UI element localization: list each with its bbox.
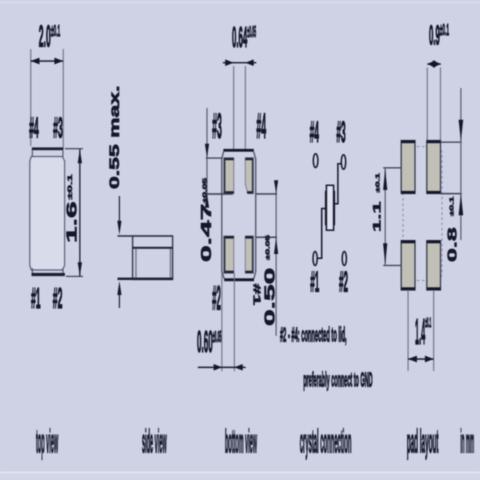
dimension 0.47 line: [205, 108, 209, 208]
svg-text:±0.05: ±0.05: [247, 25, 256, 42]
top view body outline: [30, 157, 65, 271]
caption side view: [142, 425, 167, 461]
dimension 0.8 line: [459, 88, 464, 240]
side view body outline: [133, 236, 173, 280]
side view pad line right: [170, 249, 171, 279]
pin label #3 (top view): [53, 112, 63, 145]
pin label #2 (bottom view): [212, 281, 221, 318]
dimension 0.60 extension line right: [234, 273, 235, 371]
svg-text:#2: #2: [339, 266, 348, 299]
terminal circle #3: [341, 155, 345, 170]
dimension 0.50 extension line bottom: [256, 237, 277, 239]
svg-text:side view: side view: [142, 425, 167, 461]
dimension 0.64 extension line right: [245, 66, 246, 150]
svg-text:top view: top view: [36, 425, 58, 461]
pad TR (pad layout): [427, 141, 441, 194]
dimension 2.0±0.1 text: [39, 18, 61, 53]
svg-text:bottom view: bottom view: [225, 425, 257, 461]
svg-text:±0.1: ±0.1: [440, 20, 449, 39]
dimension 0.55 max. text (vertical): [107, 85, 122, 189]
frame line top: [0, 2, 480, 3]
svg-text:±0.05: ±0.05: [213, 329, 222, 346]
svg-text:#1: #1: [251, 284, 262, 306]
dimension 0.8±0.1 text (vertical): [446, 196, 460, 262]
svg-text:±0.1: ±0.1: [51, 21, 60, 40]
svg-text:0.47: 0.47: [198, 204, 214, 262]
dimension 0.50 extension line top: [256, 193, 277, 195]
dimension 0.55 arrow line upper: [117, 196, 121, 235]
pad #3 (bottom view top-left): [224, 158, 234, 194]
terminal circle #4: [313, 154, 318, 168]
pin label #4 (crystal): [310, 115, 320, 149]
svg-text:0.60: 0.60: [197, 325, 213, 359]
dimension 1.6 extension line top: [65, 148, 83, 149]
dimension 0.47 extension line top: [206, 157, 222, 158]
pad TL (pad layout): [401, 141, 415, 194]
dimension 1.4 extension line right: [433, 290, 434, 371]
bottom view body bottom edge: [224, 278, 254, 281]
dimension 1.4 extension line left: [408, 290, 409, 371]
svg-text:0.9: 0.9: [429, 20, 440, 51]
pad layout footprint outline (dashed): [403, 147, 442, 281]
svg-text:#1: #1: [31, 282, 41, 315]
pad #4 (bottom view top-right): [245, 158, 253, 194]
svg-text:preferably connect to GND: preferably connect to GND: [303, 370, 372, 392]
pad #2 (bottom view bottom-left): [224, 236, 234, 273]
caption pad layout: [407, 423, 439, 460]
svg-text:#2: #2: [212, 281, 221, 318]
dimension 2.0 extension line left: [30, 49, 31, 146]
svg-text:±0.1: ±0.1: [67, 174, 74, 200]
svg-text:1.6: 1.6: [64, 201, 80, 243]
dimension 0.8 extension line bottom: [441, 193, 462, 195]
pin label #1 (top view): [31, 282, 41, 315]
top view pad edge bottom: [32, 268, 65, 276]
svg-text:±0.1: ±0.1: [375, 172, 381, 192]
svg-text:#4: #4: [256, 108, 266, 146]
dimension 0.64±0.05 text: [232, 21, 256, 54]
wire from #3 to crystal: [334, 164, 342, 204]
pin label #2 (crystal): [339, 266, 348, 299]
pad BL (pad layout): [401, 241, 415, 290]
pin label #3 (bottom view): [212, 108, 222, 146]
dimension 0.47 extension line bottom: [206, 193, 233, 195]
dimension 0.50 line: [274, 180, 278, 336]
dimension 0.64 extension line left: [233, 66, 234, 150]
caption crystal connection: [300, 425, 352, 461]
dimension 0.60 extension line left: [221, 272, 222, 371]
dimension 0.60±0.05 text: [197, 325, 222, 359]
dimension 0.9 arrow line: [427, 60, 441, 68]
bottom view body right edge: [254, 152, 256, 279]
svg-text:in mm: in mm: [460, 423, 474, 459]
svg-text:1.4: 1.4: [415, 311, 425, 353]
svg-text:#3: #3: [212, 108, 222, 146]
pin label #4 (bottom view): [256, 108, 266, 146]
dimension 0.50±0.05 text (vertical): [262, 234, 278, 326]
svg-text:crystal connection: crystal connection: [300, 425, 352, 461]
svg-text:±0.05: ±0.05: [265, 234, 271, 260]
dimension 2.0 arrow line: [31, 58, 64, 65]
dimension 1.6 arrow line: [78, 149, 82, 276]
dimension 1.1±0.1 text (vertical): [370, 172, 383, 232]
svg-text:pad layout: pad layout: [407, 423, 439, 460]
terminal circle #1: [313, 252, 317, 266]
svg-text:0.50: 0.50: [262, 268, 278, 326]
svg-text:#4: #4: [310, 115, 320, 149]
bottom view body top edge: [223, 149, 253, 152]
pin label #2 (top view): [53, 282, 63, 315]
note text line 1: [280, 325, 347, 347]
pad #1 (bottom view bottom-right): [245, 236, 253, 273]
svg-text:±0.1: ±0.1: [425, 316, 431, 331]
svg-text:#3: #3: [53, 112, 63, 145]
dimension 1.1 extension line top: [383, 167, 401, 168]
svg-text:±0.05: ±0.05: [202, 177, 208, 203]
dimension 0.60 arrow line: [198, 364, 246, 371]
dimension 1.1 line: [383, 168, 387, 266]
dimension 1.1 extension line bottom: [383, 265, 401, 266]
pin label #3 (crystal): [336, 115, 345, 149]
dimension 1.6 extension line bottom: [66, 276, 83, 277]
top view pad edge top: [32, 147, 64, 156]
pin label #4 (top view): [29, 112, 39, 145]
dimension 0.8 extension line top: [441, 142, 462, 143]
pad BR (pad layout): [427, 241, 441, 290]
wire from crystal to #1: [317, 209, 326, 259]
svg-text:#3: #3: [336, 115, 345, 149]
svg-text:#2 - #4: connected to lid,: #2 - #4: connected to lid,: [280, 325, 347, 347]
side view bottom edge line: [118, 278, 173, 280]
svg-text:0.55 max.: 0.55 max.: [107, 85, 122, 189]
dimension 2.0 extension line right: [63, 49, 64, 148]
caption bottom view: [225, 425, 257, 461]
svg-text:0.64: 0.64: [232, 21, 247, 54]
note text line 2: [303, 370, 372, 392]
dimension 0.55 arrow line lower: [117, 281, 121, 308]
svg-text:±0.1: ±0.1: [449, 196, 455, 216]
side view pad line left: [135, 249, 136, 279]
svg-text:#4: #4: [29, 112, 39, 145]
dimension 0.64 arrow line: [223, 59, 256, 66]
dimension 0.9±0.1 text: [429, 20, 449, 51]
dimension 1.4±0.1 text: [415, 311, 431, 353]
terminal circle #2: [342, 252, 346, 266]
svg-text:2.0: 2.0: [39, 18, 51, 53]
svg-text:0.8: 0.8: [446, 227, 460, 262]
svg-text:1.1: 1.1: [370, 201, 383, 232]
dimension 0.9 extension line right: [440, 68, 441, 141]
side view top edge line: [118, 235, 173, 236]
caption top view: [36, 425, 58, 461]
side view lid seam line: [133, 247, 173, 249]
pin label #1 (crystal): [310, 266, 319, 299]
crystal element: [325, 185, 335, 230]
dimension 1.6±0.1 text (vertical): [64, 174, 80, 243]
dimension 0.9 extension line left: [427, 68, 428, 141]
svg-text:#2: #2: [53, 282, 63, 315]
svg-text:#1: #1: [310, 266, 319, 299]
pin label #1 (bottom view, vertical): [251, 284, 262, 306]
bottom view body left edge: [222, 152, 224, 279]
caption in mm: [460, 423, 474, 459]
dimension 1.4 arrow line: [408, 356, 434, 363]
dimension 0.47±0.05 text (vertical): [198, 177, 214, 262]
frame line bottom: [0, 472, 480, 480]
